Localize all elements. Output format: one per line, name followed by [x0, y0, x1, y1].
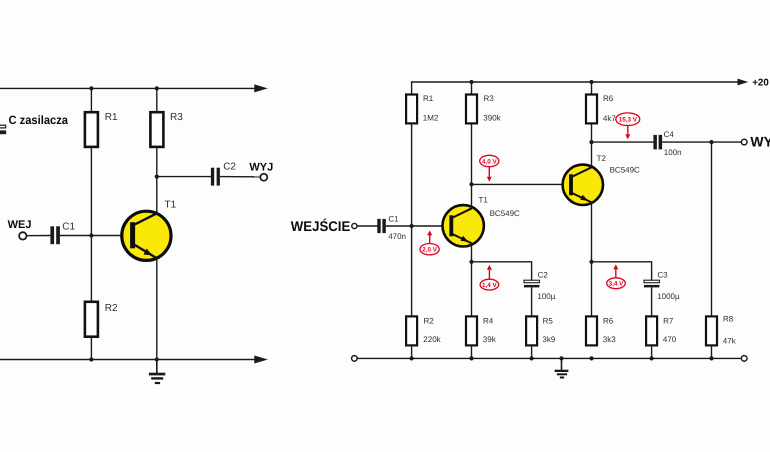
terminal WEJ — [19, 232, 26, 239]
resistor R2 (left) — [85, 302, 98, 337]
svg-text:R2: R2 — [424, 317, 435, 326]
terminal bottom-right of bottom rail (right circuit) — [741, 356, 747, 362]
svg-text:1M2: 1M2 — [423, 113, 439, 122]
terminal WEJSCIE — [352, 223, 357, 228]
wire T1 emitter down to R4 (right) — [471, 243, 473, 316]
svg-text:4,0 V: 4,0 V — [482, 158, 498, 165]
junction node rail/R3 (right) — [469, 80, 473, 84]
wire base node to R2 top (left) — [90, 236, 92, 302]
junction node R2/ground rail (left) — [89, 357, 93, 361]
wire T2 emitter down to R6 bottom — [591, 202, 593, 316]
svg-text:R2: R2 — [105, 303, 118, 314]
junction node ground stub (right) — [559, 356, 563, 360]
resistor R3 (left) — [150, 112, 163, 147]
svg-text:C2: C2 — [538, 270, 549, 279]
svg-text:470: 470 — [663, 335, 677, 344]
terminal bottom-left of bottom rail (right circuit) — [352, 356, 358, 362]
arrowhead of +20V rail (right circuit) — [738, 79, 749, 86]
svg-text:WEJ: WEJ — [8, 219, 32, 231]
wire rail to R3 top (left) — [156, 88, 158, 111]
voltage annotation 2,0 V at T1 base — [420, 230, 439, 255]
junction node R7/bottom rail — [650, 356, 654, 360]
svg-text:R6: R6 — [603, 317, 614, 326]
svg-text:T2: T2 — [597, 154, 607, 163]
resistor R8 47k — [706, 316, 717, 345]
svg-text:R1: R1 — [105, 112, 118, 123]
resistor R1 1M2 — [406, 95, 417, 124]
junction node R8/bottom rail — [709, 356, 713, 360]
junction node T1 collector (right) — [469, 182, 473, 186]
wire rail to R6 top (right) — [591, 82, 593, 94]
svg-text:R5: R5 — [543, 317, 554, 326]
resistor R1 (left) — [85, 112, 98, 147]
wire R2 bottom to bottom rail (right) — [411, 347, 413, 359]
wire R6 bottom to T2 collector — [591, 124, 593, 167]
svg-text:1,4 V: 1,4 V — [482, 282, 498, 289]
wire R5 bottom to bottom rail — [531, 347, 533, 359]
wire T1 emitter node to capacitor C2 (right) — [472, 262, 532, 281]
terminal WYJ (left) — [260, 174, 267, 181]
arrowhead of +V rail (left circuit) — [254, 84, 267, 92]
wire base node to R2 top (right) — [411, 226, 413, 316]
wire T2 emitter node to capacitor C3 — [592, 262, 652, 281]
transistor T1 (right) — [443, 205, 484, 246]
junction node R5/bottom rail — [530, 356, 534, 360]
capacitor C3 1000u electrolytic — [644, 280, 659, 287]
svg-text:C4: C4 — [664, 130, 675, 139]
transistor T1 (left) — [122, 211, 171, 260]
wire ground rail (left circuit) — [0, 359, 257, 361]
svg-text:+20 V: +20 V — [752, 78, 770, 89]
junction node base of T1 (right) — [410, 224, 414, 228]
svg-text:3,4 V: 3,4 V — [609, 281, 625, 288]
wire C1 to base node and T1 base (left) — [60, 235, 133, 237]
junction node T2 emitter — [589, 260, 593, 264]
ground symbol (left) — [149, 360, 165, 385]
capacitor C4 100n — [653, 135, 662, 150]
svg-text:470n: 470n — [388, 232, 406, 241]
svg-text:BC549C: BC549C — [610, 165, 640, 174]
svg-text:T1: T1 — [479, 195, 489, 204]
wire R4 bottom to bottom rail — [471, 347, 473, 359]
resistor R4 39k — [466, 316, 477, 345]
wire collector node to capacitor C2 (left) — [157, 176, 211, 178]
wire R3 bottom to T1 collector (left) — [156, 148, 158, 214]
wire rail to R1 top (left) — [90, 88, 92, 111]
svg-text:WYJ: WYJ — [249, 161, 273, 173]
wire T2 collector node to C4 — [592, 141, 654, 143]
wire R7 bottom to bottom rail — [651, 347, 653, 359]
svg-text:47k: 47k — [723, 337, 737, 346]
junction node R2/bottom rail — [410, 356, 414, 360]
capacitor C zasilacza (symbol clipped at left edge) — [0, 125, 6, 134]
svg-text:R4: R4 — [483, 317, 494, 326]
wire R8 bottom to bottom rail — [711, 347, 713, 359]
resistor R5 3k9 — [526, 316, 537, 345]
resistor R7 470 — [646, 316, 657, 345]
wire C4 to WYJ terminal (right) — [662, 141, 741, 143]
svg-text:C1: C1 — [388, 214, 399, 223]
wire rail to R3 top (right) — [471, 82, 473, 94]
wire T1 emitter to ground rail (left) — [156, 258, 158, 360]
junction node rail/R3 (left) — [155, 86, 159, 90]
wire bottom rail (right circuit) — [357, 357, 741, 359]
wire C2 to WYJ terminal (left) — [220, 176, 261, 178]
resistor R2 220k — [406, 316, 417, 345]
wire C3 to R7 top — [651, 287, 653, 316]
svg-text:3k3: 3k3 — [603, 335, 616, 344]
svg-text:R6: R6 — [603, 94, 614, 103]
voltage annotation 15,3 V at T2 collector — [616, 113, 640, 139]
svg-text:C zasilacza: C zasilacza — [9, 113, 69, 127]
junction node output/R8 — [709, 140, 713, 144]
wire R1 bottom to base node (left) — [90, 148, 92, 236]
wire R2 bottom to ground rail (left) — [90, 338, 92, 360]
svg-text:C1: C1 — [62, 221, 75, 232]
svg-text:100n: 100n — [664, 148, 682, 157]
wire C1 to base node and T1 base (right) — [386, 225, 450, 227]
junction node rail/R1 (left) — [89, 86, 93, 90]
junction node R4/bottom rail — [469, 356, 473, 360]
svg-text:WYJ: WYJ — [750, 134, 770, 150]
wire rail corner to R1 (right) — [411, 81, 413, 94]
svg-text:C2: C2 — [223, 161, 236, 172]
svg-text:3k9: 3k9 — [542, 335, 555, 344]
voltage annotation 1,4 V at T1 emitter — [480, 265, 499, 290]
svg-text:100µ: 100µ — [537, 292, 555, 301]
svg-text:R3: R3 — [484, 94, 495, 103]
junction node rail/R6 (right) — [589, 80, 593, 84]
svg-text:WEJŚCIE: WEJŚCIE — [291, 218, 351, 234]
svg-text:390k: 390k — [483, 113, 501, 122]
voltage annotation 4,0 V at T1 collector — [480, 155, 499, 181]
wire collector node to T2 base — [472, 183, 570, 185]
svg-text:220k: 220k — [423, 335, 441, 344]
wire R3 bottom to T1 collector (right) — [471, 124, 473, 208]
capacitor C1 470n — [377, 219, 386, 233]
capacitor C2 (left) — [211, 168, 220, 186]
svg-text:4k7: 4k7 — [603, 114, 616, 123]
svg-text:2,0 V: 2,0 V — [422, 247, 438, 254]
svg-text:15,3 V: 15,3 V — [619, 117, 638, 124]
junction node base of T1 (left) — [89, 233, 93, 237]
wire WEJSCIE terminal to C1 (right) — [357, 225, 378, 227]
svg-text:R7: R7 — [663, 317, 674, 326]
junction node R6 bottom/bottom rail — [589, 356, 593, 360]
svg-text:R1: R1 — [423, 94, 434, 103]
arrowhead of ground rail (left circuit) — [254, 356, 267, 364]
svg-text:T1: T1 — [165, 200, 177, 211]
wire +20V supply rail (right circuit) — [412, 81, 738, 83]
svg-text:1000µ: 1000µ — [657, 292, 680, 301]
transistor T2 — [563, 165, 603, 205]
junction node emitter/ground rail (left) — [155, 357, 159, 361]
svg-text:BC549C: BC549C — [490, 209, 520, 218]
svg-text:C3: C3 — [657, 270, 668, 279]
resistor R6 3k3 (bottom) — [586, 316, 597, 345]
junction node T1 emitter (right) — [469, 260, 473, 264]
wire +V supply rail (left circuit) — [0, 87, 257, 89]
junction node collector/C2 (left) — [155, 175, 159, 179]
svg-text:R8: R8 — [723, 315, 734, 324]
voltage annotation 3,4 V at T2 emitter — [607, 264, 626, 288]
capacitor C1 (left) — [50, 226, 60, 244]
junction node T2 collector/C4 — [589, 140, 593, 144]
wire WEJ terminal to C1 (left) — [26, 235, 51, 237]
svg-text:R3: R3 — [170, 112, 183, 123]
wire R1 bottom to base node (right) — [411, 124, 413, 226]
svg-text:39k: 39k — [483, 335, 497, 344]
wire C2 to R5 top — [531, 287, 533, 316]
terminal WYJ (right) — [741, 139, 747, 145]
capacitor C2 100u electrolytic — [524, 280, 539, 287]
wire output node to R8 top — [711, 142, 713, 316]
resistor R3 390k — [466, 95, 477, 124]
ground symbol (right) — [555, 358, 569, 378]
resistor R6 4k7 (top) — [586, 95, 597, 124]
